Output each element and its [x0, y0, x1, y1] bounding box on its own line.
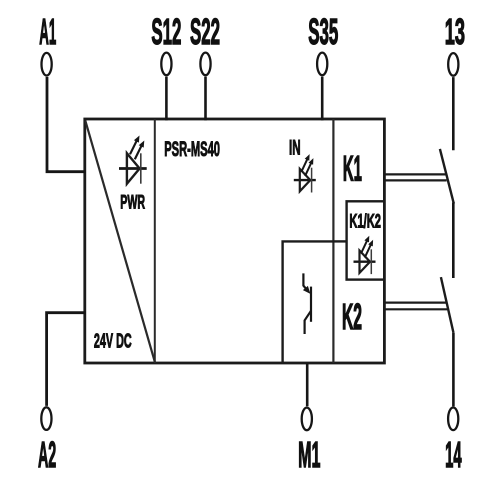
- LED PWR: [119, 136, 147, 184]
- main block outline: [85, 119, 385, 363]
- contact K2 linkage: [384, 303, 447, 310]
- LED K1/K2: [354, 236, 376, 274]
- svg-text:S12: S12: [151, 11, 181, 52]
- svg-text:S22: S22: [190, 11, 220, 52]
- svg-text:PWR: PWR: [120, 192, 145, 213]
- svg-text:A1: A1: [39, 11, 56, 52]
- wire S12: [165, 77, 168, 121]
- divider power section: [154, 119, 156, 363]
- divider relay column: [332, 119, 334, 363]
- svg-text:14: 14: [445, 434, 462, 475]
- terminal M1: [302, 408, 312, 431]
- svg-text:IN: IN: [289, 136, 301, 160]
- phototransistor lead top: [303, 273, 306, 289]
- wire M1: [306, 363, 309, 406]
- wire A2: [47, 313, 86, 406]
- power supply diagonal: [85, 121, 155, 362]
- svg-text:K1/K2: K1/K2: [349, 210, 381, 232]
- LED IN: [294, 154, 316, 192]
- optocoupler box: [283, 241, 334, 363]
- wire S35: [321, 77, 324, 121]
- svg-text:S35: S35: [308, 11, 338, 52]
- wire 13: [452, 77, 455, 150]
- phototransistor arrowhead: [303, 286, 311, 294]
- contact K1 blade: [440, 149, 454, 204]
- svg-text:PSR-MS40: PSR-MS40: [164, 137, 220, 161]
- svg-text:K2: K2: [342, 296, 362, 337]
- terminal A2: [41, 407, 51, 430]
- wire 14: [452, 333, 455, 407]
- terminal A1: [42, 53, 52, 76]
- contact K1 linkage: [384, 174, 447, 180]
- wire to K1/K2 box: [333, 240, 346, 242]
- svg-text:M1: M1: [298, 434, 320, 475]
- svg-text:24V DC: 24V DC: [94, 331, 132, 353]
- terminal 13: [448, 53, 458, 76]
- svg-text:K1: K1: [343, 150, 362, 189]
- svg-text:A2: A2: [38, 434, 56, 475]
- terminal S12: [161, 53, 171, 76]
- terminal S35: [317, 53, 327, 76]
- wire between contacts: [452, 203, 455, 279]
- svg-text:13: 13: [445, 11, 465, 52]
- K1/K2 indicator box: [347, 201, 385, 279]
- phototransistor lead bottom: [305, 311, 311, 334]
- terminal S22: [200, 53, 210, 76]
- terminal 14: [448, 408, 458, 431]
- wire S22: [204, 77, 207, 121]
- phototransistor bar: [310, 287, 312, 322]
- contact K2 blade: [441, 277, 454, 333]
- wire A1: [47, 77, 85, 172]
